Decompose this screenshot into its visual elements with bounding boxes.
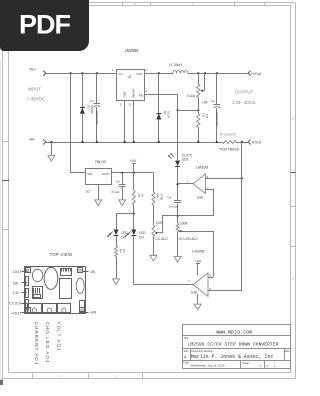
svg-text:CH: CH <box>139 235 144 239</box>
svg-text:R current: R current <box>220 133 237 137</box>
svg-text:A: A <box>184 354 187 359</box>
svg-text:VIN: VIN <box>87 172 92 176</box>
svg-text:Vin+: Vin+ <box>29 68 37 72</box>
svg-text:www.mpja.com: www.mpja.com <box>216 330 252 336</box>
svg-text:CC ADJ: CC ADJ <box>156 237 168 241</box>
svg-text:1: 1 <box>112 68 114 72</box>
svg-text:OK: OK <box>13 280 19 285</box>
svg-text:+VOut: +VOut <box>250 72 261 76</box>
svg-text:PCB TRACE: PCB TRACE <box>220 148 241 152</box>
svg-text:of: of <box>266 363 269 367</box>
svg-text:FB: FB <box>139 93 143 97</box>
svg-text:1: 1 <box>115 375 117 379</box>
svg-text:VOLT ADJ: VOLT ADJ <box>57 322 62 352</box>
svg-text:Wednesday, July 16, 2014: Wednesday, July 16, 2014 <box>191 363 225 367</box>
svg-text:3: 3 <box>134 2 136 6</box>
svg-text:LM2596 CC/CV STEP DOWN CONVERT: LM2596 CC/CV STEP DOWN CONVERTER <box>188 341 279 347</box>
svg-text:100K: 100K <box>180 221 189 225</box>
svg-text:+5V: +5V <box>130 159 137 163</box>
svg-text:1: 1 <box>187 179 189 183</box>
svg-text:R2: R2 <box>156 194 160 198</box>
svg-text:7-35VDC: 7-35VDC <box>27 96 46 101</box>
svg-text:TOP VIEW: TOP VIEW <box>50 252 73 257</box>
svg-text:Vin: Vin <box>118 72 123 76</box>
svg-text:Title: Title <box>184 336 189 340</box>
svg-text:0.01uF: 0.01uF <box>169 204 179 208</box>
svg-text:2: 2 <box>145 68 147 72</box>
svg-text:CC/CV: CC/CV <box>9 301 22 306</box>
svg-text:R1: R1 <box>201 114 205 118</box>
svg-text:Marlin P. Jones & Assoc, Inc: Marlin P. Jones & Assoc, Inc <box>191 354 274 360</box>
svg-text:2200uF/35v: 2200uF/35v <box>95 111 99 126</box>
svg-text:CH LED ADJ: CH LED ADJ <box>179 237 198 241</box>
svg-text:2: 2 <box>60 375 62 379</box>
svg-text:CH: CH <box>13 290 19 295</box>
svg-text:LM2596: LM2596 <box>125 48 139 53</box>
svg-text:Document Number: Document Number <box>191 349 213 353</box>
svg-text:-VOut: -VOut <box>250 141 261 145</box>
svg-text:-OUT: -OUT <box>12 269 22 274</box>
svg-text:5: 5 <box>209 273 211 277</box>
svg-text:C1: C1 <box>90 99 94 103</box>
svg-text:2: 2 <box>192 2 194 6</box>
svg-text:Size: Size <box>184 349 190 353</box>
svg-text:L1 33uH: L1 33uH <box>169 63 182 67</box>
svg-text:5: 5 <box>129 103 131 107</box>
svg-text:GND: GND <box>122 91 126 97</box>
svg-text:+OUT: +OUT <box>11 310 22 315</box>
svg-text:U3B: U3B <box>191 291 197 295</box>
svg-text:+IN: +IN <box>90 310 96 315</box>
svg-text:1K: 1K <box>141 194 145 198</box>
svg-text:VOUT: VOUT <box>101 172 110 176</box>
svg-text:Sheet: Sheet <box>242 361 249 365</box>
svg-text:2200uF/35v: 2200uF/35v <box>215 112 219 127</box>
svg-text:C4: C4 <box>167 195 171 199</box>
svg-text:78L05: 78L05 <box>95 159 107 164</box>
svg-text:R3: R3 <box>137 194 141 198</box>
svg-text:LM358: LM358 <box>196 165 209 170</box>
svg-text:4: 4 <box>145 90 147 94</box>
svg-text:R4: R4 <box>119 249 123 253</box>
svg-text:0.1uF: 0.1uF <box>112 190 120 194</box>
svg-text:OUT: OUT <box>136 72 143 76</box>
svg-text:CHG LED ADJ: CHG LED ADJ <box>45 322 50 364</box>
svg-text:SS34: SS34 <box>166 111 170 118</box>
svg-text:470K: 470K <box>160 194 164 201</box>
svg-text:D2: D2 <box>163 111 167 115</box>
svg-text:C2: C2 <box>211 99 215 103</box>
svg-text:3: 3 <box>120 103 122 107</box>
svg-text:U1: U1 <box>128 75 132 79</box>
svg-text:1.25 - 30Vdc: 1.25 - 30Vdc <box>232 100 256 105</box>
svg-text:+5V: +5V <box>195 259 202 263</box>
svg-text:1K: 1K <box>122 249 126 253</box>
svg-text:ON/OFF: ON/OFF <box>131 88 135 99</box>
svg-text:CURRENT ADJ: CURRENT ADJ <box>34 322 39 366</box>
svg-text:LM358: LM358 <box>192 249 205 254</box>
svg-text:-IN: -IN <box>90 269 95 274</box>
svg-text:U2: U2 <box>86 190 90 194</box>
svg-text:V Adj: V Adj <box>187 94 195 98</box>
svg-text:U3A: U3A <box>197 195 204 199</box>
svg-text:D1: D1 <box>87 105 91 109</box>
svg-text:C3: C3 <box>116 179 120 183</box>
svg-text:Date: Date <box>184 361 190 365</box>
svg-text:OUTPUT: OUTPUT <box>235 89 254 94</box>
svg-text:7: 7 <box>188 279 190 283</box>
svg-text:Rev: Rev <box>285 349 290 353</box>
svg-text:470: 470 <box>205 114 209 119</box>
svg-text:LED: LED <box>182 158 189 162</box>
svg-text:INPUT: INPUT <box>28 87 42 92</box>
svg-text:10K: 10K <box>202 100 209 104</box>
svg-text:Vin-: Vin- <box>29 138 36 142</box>
svg-text:B: B <box>292 117 294 121</box>
svg-text:10K: 10K <box>156 221 163 225</box>
